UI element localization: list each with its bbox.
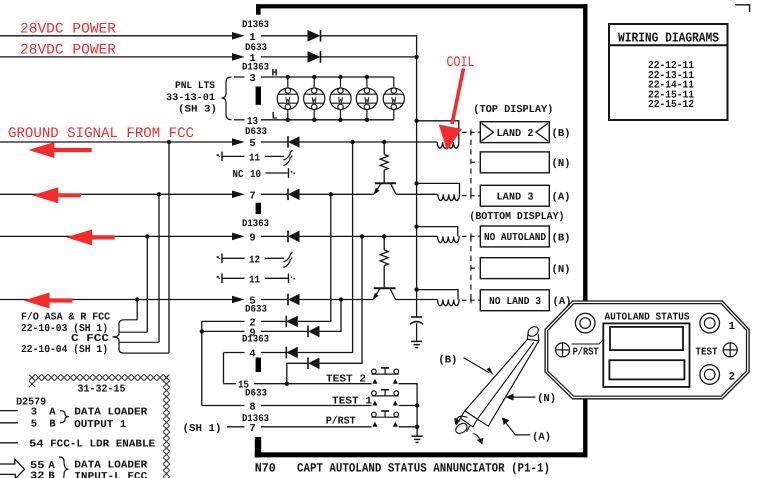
svg-text:(SH 3): (SH 3) bbox=[178, 103, 217, 115]
svg-text:12: 12 bbox=[249, 254, 260, 266]
wire stub pin 13 left bbox=[234, 119, 245, 121]
pin 2 D633 bbox=[249, 317, 255, 329]
wire FCC-L LDR enable bbox=[0, 442, 18, 444]
label D633 (pin 5) bbox=[245, 127, 267, 138]
mech link stub (N) bbox=[471, 161, 479, 163]
label 31-32-15 bbox=[78, 383, 126, 395]
wiring diagrams box bbox=[609, 24, 728, 120]
svg-text:D1363: D1363 bbox=[242, 335, 269, 346]
junction net2/row9b bbox=[200, 329, 204, 333]
arrow into pin 7 bbox=[232, 191, 245, 199]
wire pin7 to diode bbox=[261, 193, 288, 195]
wire diode to bus bbox=[321, 56, 417, 58]
mech link stub NO AUTOLAND bbox=[462, 233, 480, 239]
label (A) top bbox=[552, 192, 571, 204]
wire 28VDC to pin 1 D633 bbox=[0, 56, 232, 58]
svg-text:LAND 2: LAND 2 bbox=[497, 128, 534, 140]
vertical net B (pin7 to C FCC) bbox=[158, 194, 160, 342]
arrow into pin 9 bbox=[232, 233, 245, 241]
svg-text:28VDC POWER: 28VDC POWER bbox=[20, 22, 116, 38]
annunciator unit enclosure box top edge bbox=[256, 4, 588, 8]
label (N) top bbox=[552, 158, 571, 170]
rotation arrow right bbox=[474, 434, 484, 445]
svg-text:CAPT AUTOLAND STATUS ANNUNCIAT: CAPT AUTOLAND STATUS ANNUNCIATOR (P1-1) bbox=[297, 462, 550, 476]
pin 5 D633 bbox=[249, 138, 255, 150]
wire row4 corner up bbox=[298, 142, 353, 353]
panel lamp 5 bbox=[383, 77, 404, 120]
relay coil K1 LAND 2 bbox=[437, 142, 459, 148]
screw top-right bbox=[700, 313, 720, 333]
enclosure bottom edge bbox=[255, 452, 588, 457]
svg-text:7: 7 bbox=[249, 423, 255, 435]
faceplate display bezel bbox=[603, 323, 689, 387]
pin 12 D1363 bbox=[249, 254, 260, 266]
svg-text:11: 11 bbox=[249, 152, 260, 164]
arrow (B) to lamp bbox=[464, 358, 494, 376]
junction row7/vert-B bbox=[157, 192, 161, 196]
label (SH 1) bbox=[183, 423, 222, 435]
brace FCC labels bbox=[113, 333, 120, 340]
label (BOTTOM DISPLAY) bbox=[469, 211, 564, 223]
label D1363 (pin 9) bbox=[242, 219, 269, 230]
wire net to pin 8 bbox=[202, 405, 245, 407]
capacitor C1 bbox=[410, 317, 423, 341]
connector bar between pins 3 and 13 bbox=[256, 87, 261, 105]
capped wire symbol (pin 10) bbox=[289, 168, 296, 178]
svg-text:(B): (B) bbox=[552, 232, 571, 244]
svg-text:A: A bbox=[49, 406, 56, 418]
pin 13 D1363 bbox=[247, 116, 258, 128]
coil return NO AUTOLAND bbox=[417, 227, 458, 237]
wire data loader pin 5 bbox=[0, 422, 18, 424]
svg-text:54: 54 bbox=[29, 439, 43, 451]
svg-text:P/RST: P/RST bbox=[573, 346, 599, 358]
label A (pin 3) bbox=[49, 406, 56, 418]
svg-text:31-32-15: 31-32-15 bbox=[78, 383, 126, 395]
resistor R1 bbox=[380, 142, 388, 183]
capped spare at pin 11 (D1363) left bbox=[217, 274, 222, 284]
wire row9 to coil bbox=[300, 235, 438, 237]
text NO AUTOLAND bbox=[484, 232, 546, 244]
label (N) bottom bbox=[552, 264, 571, 276]
display window NO LAND 3 bbox=[480, 290, 549, 311]
spare wire break symbol (pin 12) bbox=[283, 252, 292, 267]
wire pin 10 bbox=[266, 172, 289, 174]
wire switch TEST2 to common bbox=[399, 384, 417, 406]
label D633 (pin 2) bbox=[245, 305, 267, 316]
coil return LAND 3 bbox=[417, 183, 460, 194]
push-button switch TEST 1 bbox=[372, 390, 399, 406]
svg-text:C FCC: C FCC bbox=[71, 333, 110, 345]
label B (pin 32) bbox=[48, 470, 55, 478]
svg-text:D1363: D1363 bbox=[242, 63, 269, 74]
caption N70 CAPT AUTOLAND STATUS ANNUNCIATOR (P1-1) bbox=[255, 462, 550, 476]
red arrow (ground signal 1) bbox=[28, 142, 91, 158]
arrow into pin 5 bbox=[232, 138, 245, 146]
label D633 (pin 1) bbox=[245, 43, 267, 54]
brace pins 3/13 bbox=[222, 77, 232, 120]
wire pin8 to switch bbox=[261, 405, 372, 407]
open arrow data loader input bbox=[0, 459, 25, 478]
label 22-10-04 (SH 1) bbox=[21, 344, 108, 356]
svg-text:28VDC POWER: 28VDC POWER bbox=[20, 43, 116, 59]
junction bus/NOAUTOLAND return bbox=[414, 224, 418, 228]
label (N) lamp bbox=[537, 393, 556, 405]
label D1363 (pin 1) bbox=[242, 20, 269, 31]
wire pin7b to switch bbox=[261, 426, 372, 428]
mech link stub LAND 2 bbox=[462, 129, 480, 135]
pin 10 D633 bbox=[250, 169, 261, 181]
svg-text:D1363: D1363 bbox=[242, 219, 269, 230]
svg-text:F/O ASA & R FCC: F/O ASA & R FCC bbox=[21, 311, 111, 323]
svg-text:33-13-01: 33-13-01 bbox=[166, 93, 215, 104]
wire to ground bbox=[416, 427, 418, 436]
hook wire to net D bbox=[119, 320, 137, 333]
arrow (A) to lamp bbox=[502, 417, 530, 435]
svg-text:TEST: TEST bbox=[696, 346, 718, 358]
wire pin 12 right bbox=[265, 257, 284, 259]
label D1363 (pin 4) bbox=[242, 335, 269, 346]
pin 8 D633 bbox=[249, 402, 255, 414]
wire corner to pin 15 bbox=[224, 383, 237, 385]
mech linkage dashes (top display) bbox=[470, 130, 472, 196]
label TEST 1 bbox=[332, 396, 372, 408]
svg-text:(N): (N) bbox=[552, 158, 571, 170]
enclosure bottom-left corner stub bbox=[255, 437, 261, 457]
transistor Q2 bbox=[372, 288, 395, 300]
lamp assembly body bbox=[465, 339, 539, 426]
wire pin 11 (D1363) right bbox=[265, 277, 289, 279]
panel lamp 2 bbox=[304, 75, 325, 122]
lamp H rail bbox=[261, 76, 394, 78]
label F/O ASA & R FCC bbox=[21, 311, 111, 323]
svg-text:PNL LTS: PNL LTS bbox=[175, 81, 215, 92]
label OUTPUT 1 bbox=[74, 419, 126, 431]
zone corner mark bbox=[735, 5, 750, 12]
wire row7 to transistor emitter bbox=[300, 193, 374, 195]
junction row5/resistor R1 bbox=[382, 140, 386, 144]
wire testbranch corner up bbox=[320, 236, 363, 363]
junction row9/resistor R2 bbox=[382, 234, 386, 238]
connector bar between pins 4 and 15 bbox=[256, 358, 261, 373]
red arrow (ground signal 4) bbox=[24, 293, 73, 309]
red arrow to coil bbox=[439, 69, 464, 151]
pin 11 D1363 bbox=[249, 274, 260, 286]
diode CR (row 9) bbox=[288, 231, 300, 243]
pin 5 D1363 bbox=[249, 296, 255, 308]
wire 28VDC to pin 1 D1363 bbox=[0, 35, 232, 37]
vertical net A (pin5 to 22-10-04) bbox=[168, 142, 170, 353]
bracket data loader input bbox=[59, 457, 69, 478]
relay coil K4 NO LAND 3 bbox=[438, 300, 460, 306]
wire pin5b to diode bbox=[261, 299, 288, 301]
svg-text:(N): (N) bbox=[552, 264, 571, 276]
svg-text:22-10-04 (SH 1): 22-10-04 (SH 1) bbox=[21, 344, 108, 356]
text LAND 2 bbox=[497, 128, 534, 140]
capped wire symbol (pin 11 D1363) bbox=[289, 274, 296, 284]
label FCC-L LDR ENABLE bbox=[50, 439, 155, 451]
junction row5/vert-A bbox=[167, 140, 171, 144]
wire corner to pin 2 bbox=[202, 320, 245, 322]
hook wire to net A bbox=[119, 341, 169, 354]
svg-text:OUTPUT 1: OUTPUT 1 bbox=[74, 419, 126, 431]
push-button switch P/RST bbox=[372, 411, 399, 427]
svg-text:2: 2 bbox=[728, 372, 735, 384]
faceplate window 2 bbox=[609, 360, 684, 379]
svg-text:L: L bbox=[272, 111, 278, 122]
wire pin9 to diode bbox=[261, 235, 288, 237]
panel lamp 1 bbox=[277, 75, 298, 122]
diode CR (test branch) bbox=[308, 358, 320, 370]
hatched corner piece bbox=[29, 381, 35, 387]
junction common/TEST1 bbox=[415, 403, 419, 407]
svg-text:(N): (N) bbox=[537, 393, 556, 405]
label H bbox=[272, 68, 278, 79]
wire FCC row to pin 5 (D1363) bbox=[0, 299, 232, 301]
wiring diagram ref 22-15-11 bbox=[648, 89, 694, 101]
display window N (top) bbox=[480, 152, 549, 173]
panel lamp 3 bbox=[330, 75, 351, 122]
mech link stub (N) bbox=[471, 267, 479, 269]
label TEST bbox=[696, 346, 718, 358]
svg-text:D1363: D1363 bbox=[242, 20, 269, 31]
label L bbox=[272, 111, 278, 122]
junction row15/branch bbox=[285, 382, 289, 386]
label (B) lamp bbox=[438, 355, 457, 367]
svg-text:(B): (B) bbox=[438, 355, 457, 367]
wire data loader pin 3 bbox=[0, 410, 18, 412]
wire stub pin 3 left bbox=[234, 76, 245, 78]
pin 9 D633 bbox=[249, 327, 255, 339]
lamp assembly base cylinder bbox=[454, 418, 470, 435]
label P/RST bbox=[326, 416, 356, 428]
vertical net C (pin9 to 22-10-03) bbox=[146, 236, 148, 332]
mech link stub NO LAND 3 bbox=[462, 297, 480, 303]
wire FCC row to pin 9 bbox=[0, 235, 232, 237]
wire common down bbox=[416, 406, 418, 427]
screw top-left bbox=[575, 313, 595, 333]
panel lamp 4 bbox=[356, 75, 377, 122]
wire row2 corner up bbox=[298, 194, 331, 321]
diode CR (row 5) bbox=[288, 136, 300, 148]
capped spare at pin 12 left bbox=[217, 254, 222, 264]
bracket data loader output bbox=[60, 411, 69, 423]
wire switch P/RST to common bbox=[399, 426, 417, 428]
wire pin 11 (D1363) left bbox=[222, 277, 245, 279]
svg-text:7: 7 bbox=[249, 190, 255, 202]
svg-text:3: 3 bbox=[249, 73, 255, 85]
resistor R2 bbox=[380, 236, 388, 288]
label C FCC bbox=[71, 333, 110, 345]
screw bottom-right bbox=[700, 365, 720, 385]
diode CR (28VDC No.2) bbox=[308, 51, 321, 63]
label 2 (lamp 2) bbox=[728, 372, 735, 384]
svg-text:LAND 3: LAND 3 bbox=[497, 192, 534, 204]
label 28VDC POWER (top) bbox=[20, 22, 116, 38]
svg-text:11: 11 bbox=[249, 274, 260, 286]
svg-text:8: 8 bbox=[249, 402, 255, 414]
junction row9/vert-C bbox=[145, 234, 149, 238]
junction row9/vert-362 bbox=[360, 234, 364, 238]
wire pin 11 right bbox=[265, 155, 284, 157]
svg-text:B: B bbox=[49, 419, 56, 431]
label D1363 (pin 3) bbox=[242, 63, 269, 74]
svg-text:B: B bbox=[48, 470, 55, 478]
wire Q1 collector to coil bbox=[396, 193, 438, 195]
svg-text:22-15-12: 22-15-12 bbox=[648, 99, 694, 111]
chevron left LAND 2 bbox=[482, 123, 494, 141]
enclosure top-left corner stub bbox=[256, 4, 261, 15]
capped spare at pin 11 left bbox=[217, 152, 222, 162]
label PNL LTS bbox=[175, 81, 215, 92]
relay coil K3 NO AUTOLAND bbox=[438, 236, 460, 242]
connector bar between pins 7 and 9 bbox=[256, 203, 261, 214]
wire pin1b to diode bbox=[261, 56, 308, 58]
svg-text:32: 32 bbox=[30, 470, 45, 478]
svg-text:D633: D633 bbox=[245, 305, 267, 316]
junction row5/vert-352 bbox=[350, 140, 354, 144]
lamp L rail bbox=[261, 119, 394, 121]
wire row15 branch up bbox=[287, 363, 308, 383]
diode CR (row 2) bbox=[286, 316, 298, 328]
pin 5 D2579 bbox=[31, 419, 37, 431]
wire pin9b to diode bbox=[261, 330, 308, 332]
red arrow (ground signal 2) bbox=[32, 187, 81, 203]
label 22-10-03 (SH 1) bbox=[21, 323, 108, 335]
wiring diagram ref 22-15-12 bbox=[648, 99, 694, 111]
display window N (bottom) bbox=[480, 258, 549, 279]
svg-text:INPUT-L FCC: INPUT-L FCC bbox=[74, 471, 148, 478]
label 28VDC POWER (second) bbox=[20, 43, 116, 59]
svg-text:1: 1 bbox=[728, 321, 735, 333]
wire pin5 to diode bbox=[261, 141, 288, 143]
rotation arrow left bbox=[454, 416, 467, 425]
pin 11 D633 bbox=[249, 152, 260, 164]
svg-text:TEST 1: TEST 1 bbox=[332, 396, 372, 408]
junction bus/NOLAND3 return bbox=[414, 287, 418, 291]
lamp assembly cap cylinder bbox=[526, 325, 540, 341]
label 33-13-01 bbox=[166, 93, 215, 104]
coil return NO LAND 3 bbox=[417, 290, 458, 300]
chevron right LAND 2 bbox=[536, 123, 548, 141]
wiring diagram ref 22-13-11 bbox=[648, 70, 694, 82]
wire pin 12 left bbox=[222, 257, 245, 259]
svg-text:COIL: COIL bbox=[447, 55, 475, 71]
screw head p/rst bbox=[556, 343, 570, 357]
vertical net D (pin5b to F/O ASA) bbox=[136, 300, 138, 320]
svg-text:AUTOLAND STATUS: AUTOLAND STATUS bbox=[605, 312, 690, 324]
wire stub (SH 1) to pin 7 bbox=[227, 426, 245, 428]
label D1363 (pin 7) bbox=[242, 414, 269, 425]
pin 1 D633 bbox=[249, 53, 255, 65]
svg-text:3: 3 bbox=[31, 406, 37, 418]
display window LAND 3 bbox=[480, 185, 549, 206]
svg-text:DATA LOADER: DATA LOADER bbox=[74, 406, 148, 418]
pin 9 D1363 bbox=[249, 232, 255, 244]
arrow into pin 5 (D1363) bbox=[232, 296, 245, 304]
wire Q2 collector to coil bbox=[396, 299, 438, 301]
arrow into pin 1 D633 bbox=[232, 53, 245, 61]
svg-text:4: 4 bbox=[249, 349, 255, 361]
transistor Q1 bbox=[373, 183, 396, 195]
label (B) bottom bbox=[552, 232, 571, 244]
label INPUT-L FCC bbox=[74, 471, 148, 478]
label DATA LOADER (output) bbox=[74, 406, 148, 418]
hook wire to net B bbox=[119, 341, 159, 343]
diode CR (28VDC No.1) bbox=[308, 30, 321, 42]
wire pin2 to diode bbox=[261, 320, 286, 322]
wire corner to pin 4 bbox=[224, 352, 245, 354]
svg-text:9: 9 bbox=[249, 232, 255, 244]
diode CR (row 9b) bbox=[308, 326, 320, 338]
wire pin 11 left bbox=[222, 155, 245, 157]
wire FCC row to pin 7 bbox=[0, 193, 232, 195]
diode CR (row 4) bbox=[286, 347, 298, 359]
wire net to pin 9 (D633) bbox=[202, 330, 245, 332]
wire pin4 to diode bbox=[261, 352, 286, 354]
faceplate title AUTOLAND STATUS bbox=[605, 312, 690, 324]
label A (pin 55) bbox=[48, 460, 55, 472]
label D2579 bbox=[16, 396, 46, 408]
pin 7 D633 bbox=[249, 190, 255, 202]
pin 54 D2579 bbox=[29, 439, 43, 451]
wiring diagrams title bbox=[618, 32, 719, 47]
wire row9b corner up bbox=[320, 300, 342, 332]
svg-text:FCC-L LDR ENABLE: FCC-L LDR ENABLE bbox=[50, 439, 155, 451]
pin 55 D2579 bbox=[30, 460, 45, 472]
arrow into pin 1 D1363 bbox=[232, 32, 245, 40]
label (A) bottom bbox=[553, 296, 572, 308]
mech linkage dashes (bottom display) bbox=[470, 236, 472, 300]
svg-text:(B): (B) bbox=[552, 128, 571, 140]
svg-text:P/RST: P/RST bbox=[326, 416, 356, 428]
svg-text:D633: D633 bbox=[245, 43, 267, 54]
svg-text:NC: NC bbox=[233, 169, 245, 181]
vertical net rows 2/9/8 bbox=[201, 321, 203, 405]
label (TOP DISPLAY) bbox=[473, 104, 553, 116]
wiring diagram ref 22-12-11 bbox=[648, 60, 694, 72]
label P/RST bbox=[572, 340, 604, 359]
svg-text:DATA LOADER: DATA LOADER bbox=[74, 460, 148, 472]
vertical net rows 4/15 bbox=[223, 353, 225, 384]
junction row7/vert-330 bbox=[329, 192, 333, 196]
diode CR (row 5b) bbox=[288, 294, 300, 306]
hatched border right (31-32-15 block) bbox=[163, 374, 169, 478]
red arrow (ground signal 3) bbox=[66, 229, 115, 245]
screw head test bbox=[723, 343, 737, 357]
text LAND 3 bbox=[497, 192, 534, 204]
label 1 (lamp 1) bbox=[728, 321, 735, 333]
hook wire to net C bbox=[119, 331, 147, 333]
annunciator faceplate outline bbox=[545, 301, 749, 399]
svg-text:GROUND SIGNAL FROM FCC: GROUND SIGNAL FROM FCC bbox=[8, 126, 194, 142]
lamp assembly base face bbox=[460, 411, 477, 427]
display window LAND 2 bbox=[480, 122, 549, 143]
svg-text:N70: N70 bbox=[255, 462, 276, 476]
label NC (pin 10) bbox=[233, 169, 245, 181]
svg-text:5: 5 bbox=[31, 419, 37, 431]
junction row5b/vert-D bbox=[135, 297, 139, 301]
svg-text:(SH 1): (SH 1) bbox=[183, 423, 222, 435]
ground (capacitor) bbox=[411, 341, 422, 347]
svg-text:(BOTTOM DISPLAY): (BOTTOM DISPLAY) bbox=[469, 211, 564, 223]
wire pin15 to switch bbox=[254, 383, 372, 385]
pin 7 D1363 bbox=[249, 423, 255, 435]
svg-text:(A): (A) bbox=[552, 192, 571, 204]
junction bus/LAND3 return bbox=[414, 181, 418, 185]
pin 1 D1363 bbox=[249, 32, 255, 44]
label TEST 2 bbox=[326, 374, 366, 386]
